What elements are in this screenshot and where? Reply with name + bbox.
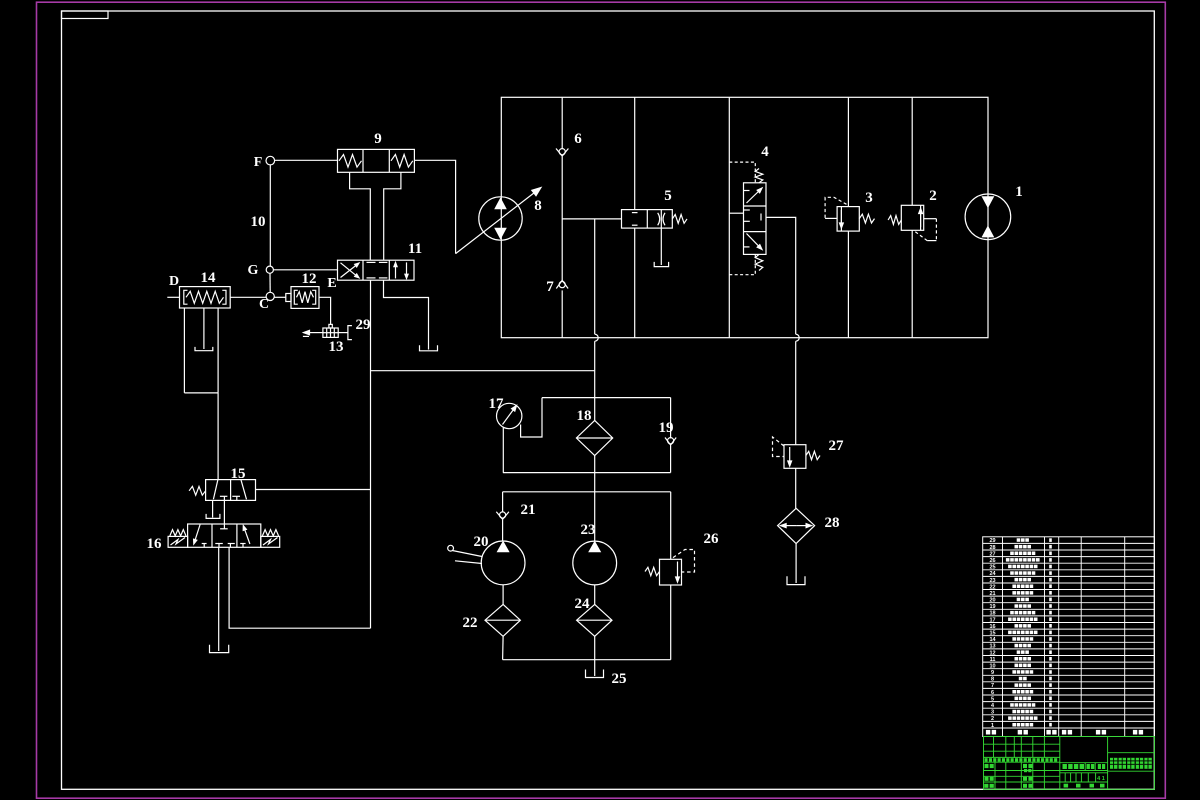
valve 9 right spring (391, 155, 413, 168)
valve 12 brackets (294, 290, 298, 304)
svg-text:26: 26 (704, 531, 720, 547)
svg-text:E: E (327, 276, 336, 291)
svg-text:2: 2 (929, 188, 937, 204)
svg-text:3: 3 (991, 710, 994, 716)
valve 27 pilot (dashed) (773, 437, 785, 457)
svg-text:19: 19 (989, 604, 995, 610)
wire 14 to C (230, 296, 266, 298)
valve 16 drain (218, 547, 220, 651)
pump U8 variable arrow (456, 193, 534, 254)
wire F to valve 9 (275, 159, 338, 161)
svg-text:29: 29 (989, 538, 995, 544)
tank 25 (586, 670, 604, 678)
svg-text:17: 17 (489, 396, 505, 412)
gauge loop bottom (503, 472, 671, 474)
manifold block outline (501, 97, 988, 337)
wire vertical check-valve line (561, 97, 563, 148)
wire G to valve 11 (273, 269, 337, 271)
gauge 17 step link (521, 398, 542, 437)
pump 20 lever (448, 545, 454, 551)
valve 16 right spring (262, 530, 278, 536)
svg-text:16: 16 (989, 624, 995, 630)
wire filter 22 down (502, 636, 505, 659)
valve 13 hatch (326, 328, 328, 337)
valve 5 orifice (658, 213, 665, 226)
wire center tap down (594, 219, 596, 334)
svg-text:22: 22 (463, 615, 478, 631)
valve 16 right arrow (245, 530, 250, 544)
svg-text:3: 3 (865, 190, 873, 206)
node G (266, 266, 273, 273)
bracket 29 (348, 326, 352, 340)
reservoir under 14 (183, 308, 185, 393)
wire cooler 28 down (795, 544, 797, 584)
svg-text:1: 1 (991, 723, 994, 729)
valve 15 body (206, 480, 256, 501)
svg-text:12: 12 (302, 271, 317, 287)
valve 9 body (338, 149, 415, 172)
svg-text:7: 7 (546, 279, 554, 295)
svg-text:28: 28 (989, 545, 995, 551)
valve 11 parallel arrows (395, 267, 397, 279)
valve 15 tank (206, 514, 220, 519)
svg-text:22: 22 (989, 584, 995, 590)
svg-text:5: 5 (991, 696, 994, 702)
valve 2 pilot loop (924, 218, 937, 220)
valve 26 body (660, 559, 682, 585)
valve 27 arrow (789, 447, 791, 461)
svg-text:7: 7 (991, 683, 994, 689)
svg-text:29: 29 (356, 317, 371, 333)
valve 27 body (784, 445, 806, 469)
valve 11 body (338, 260, 415, 280)
svg-text:18: 18 (989, 611, 995, 617)
wire C to 12 (274, 296, 286, 298)
title block drawing title (green) (1110, 758, 1117, 769)
valve 5 tank (654, 262, 668, 267)
valve 3 body (837, 207, 859, 232)
valve 12 connector (286, 294, 291, 302)
wire 12 to 13 (319, 297, 331, 324)
valve 14 spring (186, 291, 224, 303)
valve 14 brackets (184, 290, 188, 304)
check valve 21 (496, 512, 509, 520)
svg-text:20: 20 (989, 598, 995, 604)
valve 11 crossed arrows (341, 266, 356, 278)
valve 16 center top blocked (220, 528, 228, 530)
valve 3 feed line (847, 97, 849, 206)
valve 4 top pilot (dashed) (729, 162, 755, 183)
motor 1 circle (965, 194, 1011, 240)
valve 2 arrow (920, 214, 922, 228)
svg-text:10: 10 (989, 664, 995, 670)
valve 2 body (901, 205, 923, 230)
svg-text:19: 19 (659, 420, 674, 436)
svg-text:D: D (169, 274, 179, 289)
title block small text (green) (985, 758, 988, 762)
valve 4 left stub (729, 212, 743, 214)
valve 26 pilot (dashed) (673, 550, 695, 573)
gauge 17 needle (503, 410, 514, 425)
border zone tab (62, 11, 109, 19)
valve 5 blocked ports (632, 212, 638, 214)
check valve 19 (665, 438, 676, 446)
valve 26 arrow (677, 562, 679, 578)
valve 16 right solenoid (261, 536, 280, 547)
svg-text:9: 9 (991, 670, 994, 676)
svg-text:13: 13 (329, 339, 344, 355)
valve 5 drain (660, 228, 662, 265)
svg-text:5: 5 (664, 188, 672, 204)
svg-text:16: 16 (147, 536, 163, 552)
wire valve 26 down (670, 585, 672, 660)
filter 22 element (485, 619, 520, 621)
check valve 7 (556, 280, 568, 288)
filter 18 element (576, 437, 612, 439)
gauge 17 down link (502, 427, 504, 472)
svg-text:15: 15 (989, 631, 995, 637)
valve 13 top stub (329, 324, 332, 328)
valve 14 body (180, 287, 231, 308)
wire G to C (269, 273, 271, 292)
svg-text:21: 21 (521, 502, 536, 518)
svg-text:6: 6 (574, 131, 582, 147)
svg-text:23: 23 (581, 522, 596, 538)
valve 9 linkage (350, 172, 371, 260)
svg-text:8: 8 (534, 198, 542, 214)
valve 4 bottom spring (755, 254, 763, 270)
svg-text:6: 6 (991, 690, 994, 696)
wire valve 27 to cooler 28 (795, 468, 797, 508)
valve 12 body (291, 287, 319, 309)
motor 1 lower triangle (983, 227, 994, 237)
svg-text:11: 11 (990, 657, 996, 663)
check valve 6 (556, 149, 568, 157)
node F (266, 156, 275, 165)
valve 16 center bottom blocked (215, 543, 223, 545)
wire valve 15 to 16 (223, 500, 225, 528)
parts table grid (983, 537, 1155, 737)
valve 16 right blocked (240, 543, 245, 545)
wire reservoir to valve 15 (217, 393, 219, 480)
svg-text:1: 1 (1015, 184, 1023, 200)
valve 11 tank (420, 345, 438, 351)
svg-text:14: 14 (201, 270, 217, 286)
svg-text:24: 24 (989, 571, 996, 577)
svg-text:G: G (248, 263, 259, 278)
wire to tank 25 (594, 660, 596, 676)
valve 3 arrow (840, 210, 842, 223)
wire loop right upper (670, 492, 672, 560)
wire valve 11 drain (384, 280, 429, 349)
valve 27 spring (806, 451, 820, 459)
valve 16 body (188, 524, 261, 547)
wire valve 11 long line (370, 280, 372, 628)
valve 13 left arrow (310, 332, 323, 334)
valve 16 left solenoid (168, 536, 188, 547)
wire 18 to bottom (594, 456, 596, 473)
valve 15 left path (213, 480, 218, 500)
svg-text:24: 24 (575, 596, 591, 612)
svg-text:14: 14 (989, 637, 996, 643)
filter 18 diamond (576, 420, 612, 455)
valve 12 spring (297, 292, 314, 303)
pump 23 circle (573, 541, 617, 585)
valve 14 left stub (167, 296, 179, 298)
pump 20 triangle (498, 542, 509, 552)
wire valve 15 out (256, 489, 371, 491)
valve 5 body (622, 210, 673, 229)
wire filter 24 down (594, 636, 596, 659)
valve 16 left blocked (202, 543, 207, 545)
pump U8 circle (479, 197, 522, 240)
valve 2 inner line (920, 205, 922, 230)
svg-text:15: 15 (231, 466, 246, 482)
wire F to G (269, 165, 271, 266)
valve 15 right path (241, 480, 247, 500)
wire cross link (371, 370, 595, 372)
title block grid (green) (984, 737, 1155, 790)
svg-text:26: 26 (989, 558, 995, 564)
crossing hop right line (796, 334, 800, 341)
wire check 19 line (670, 398, 672, 439)
valve 5 spring (672, 215, 687, 224)
svg-text:11: 11 (408, 241, 422, 257)
valve 15 right blocked (232, 495, 240, 497)
filter 22 diamond (485, 604, 520, 636)
wire valve 4 output (766, 217, 796, 334)
filter 24 diamond (577, 604, 612, 636)
wire pump 23 to filter 24 (594, 585, 596, 605)
valve 15 drain (212, 500, 214, 517)
svg-text:4 1: 4 1 (1097, 776, 1105, 782)
valve 4 port bars (744, 190, 750, 192)
pump U8 upper triangle (495, 199, 506, 209)
valve 4 top arrow (747, 192, 759, 204)
svg-text:25: 25 (989, 565, 995, 571)
svg-text:18: 18 (577, 408, 592, 424)
wire 21 to pump 20 (502, 520, 504, 542)
valve 4 body (744, 183, 767, 255)
pump loop top (503, 491, 671, 493)
svg-text:F: F (254, 155, 263, 170)
cooler 28 arrows (786, 525, 796, 527)
valve 16 left arrow (195, 525, 200, 540)
svg-text:25: 25 (612, 671, 627, 687)
valve 3 inner line (840, 207, 842, 232)
valve 11 center blocked ports (367, 261, 376, 263)
valve 2 spring (888, 216, 901, 225)
parts table header text (986, 730, 990, 735)
wire valve9 to pump8 control (414, 160, 455, 253)
reservoir pipe (203, 308, 205, 349)
pump U8 lower triangle (495, 228, 506, 238)
svg-text:21: 21 (989, 591, 995, 597)
valve 16 tank (210, 645, 229, 653)
svg-text:10: 10 (251, 214, 266, 230)
node C (266, 292, 274, 300)
svg-text:17: 17 (989, 617, 995, 623)
valve 3 spring (859, 214, 874, 223)
svg-text:27: 27 (829, 438, 845, 454)
svg-text:28: 28 (825, 515, 840, 531)
motor 1 upper triangle (983, 197, 994, 207)
wire valve 5 feed line (634, 97, 636, 209)
svg-text:12: 12 (989, 650, 995, 656)
valve 4 feed line (728, 97, 730, 337)
pump 23 triangle (589, 542, 600, 552)
valve 16 left spring (170, 530, 186, 536)
filter 24 element (577, 619, 612, 621)
wire manifold to valve 27 (795, 341, 797, 445)
svg-text:C: C (259, 297, 269, 312)
wire center to pump 23 (594, 473, 596, 541)
valve 13 body (323, 328, 338, 337)
wire 13 right (338, 332, 348, 334)
valve 3 pilot (dashed) (825, 197, 846, 218)
tank 28 (787, 576, 805, 584)
svg-text:8: 8 (991, 677, 994, 683)
valve 15 left blocked (220, 495, 228, 497)
gauge loop top (542, 397, 671, 399)
valve 26 spring (645, 567, 660, 575)
svg-text:4: 4 (761, 144, 769, 160)
valve 2 feed line (911, 97, 913, 205)
svg-text:13: 13 (989, 644, 995, 650)
valve 9 left spring (339, 155, 362, 168)
svg-text:2: 2 (991, 716, 994, 722)
valve 4 bottom arrow (747, 234, 759, 246)
gauge 17 circle (497, 403, 522, 428)
wire pump 20 to filter 22 (502, 585, 504, 605)
wire into valve 5 (562, 218, 621, 220)
svg-text:27: 27 (989, 551, 995, 557)
valve 4 bottom pilot (dashed) (729, 254, 755, 274)
valve 15 spring (189, 486, 206, 495)
pump 20 circle (481, 541, 525, 585)
svg-text:23: 23 (989, 578, 995, 584)
pump loop bottom (503, 659, 671, 661)
wire loop left upper (502, 492, 504, 512)
cooler 28 diamond (778, 508, 815, 543)
reservoir tank symbol (195, 347, 213, 351)
svg-text:9: 9 (374, 131, 382, 147)
wire valve 16 return (229, 547, 370, 628)
crossing hop center line (595, 334, 599, 341)
valve 4 top spring (755, 169, 763, 183)
svg-text:20: 20 (474, 534, 489, 550)
